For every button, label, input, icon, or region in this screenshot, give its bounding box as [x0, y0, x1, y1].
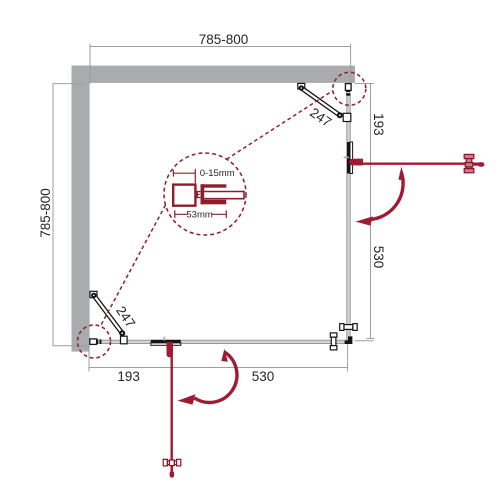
hinge profile right door: [344, 142, 353, 174]
detail leader line to bottom-left: [100, 205, 166, 327]
wall top: [72, 66, 356, 83]
detail dim 53mm: [175, 210, 227, 218]
door right tip: [474, 162, 485, 166]
brace bottom-left: [90, 291, 127, 344]
dimension 530 bottom: [347, 344, 349, 372]
detail dim 0-15mm: [173, 169, 195, 183]
svg-text:785-800: 785-800: [38, 188, 53, 238]
detail dashed circle: [164, 153, 246, 235]
svg-text:530: 530: [371, 246, 386, 269]
dimension 785-800 top: [90, 44, 351, 84]
dimension 530 right: [355, 339, 375, 341]
glass panel right: [347, 96, 350, 341]
detail: glass in profile: [204, 191, 244, 200]
detail: door profile: [201, 184, 227, 204]
detail leader line to top-right: [227, 91, 333, 160]
door bottom (open): [167, 342, 173, 471]
corner bracket: [345, 336, 353, 344]
svg-text:53mm: 53mm: [186, 210, 212, 221]
dimension 193 right: [355, 84, 375, 339]
svg-text:530: 530: [252, 369, 275, 384]
detail: wall profile: [173, 185, 195, 206]
svg-text:785-800: 785-800: [199, 32, 249, 47]
swing arc right door: [356, 167, 406, 226]
door bottom handle: [163, 459, 181, 466]
door bottom tip: [170, 466, 175, 478]
door right handle: [464, 154, 474, 172]
wall clamp bottom-left: [90, 339, 101, 345]
svg-text:193: 193: [371, 113, 386, 136]
wall clamp top-right: [345, 84, 351, 96]
detail: seal marks: [197, 192, 200, 198]
dimension 193 bottom: [89, 345, 348, 372]
glass clamp spool on bottom panel: [330, 333, 337, 350]
svg-text:0-15mm: 0-15mm: [200, 168, 235, 179]
wall left: [72, 66, 90, 352]
glass panel bottom: [101, 340, 350, 343]
dashed circle top-right: [333, 72, 366, 105]
door right (open): [349, 159, 482, 166]
swing arc bottom door: [178, 349, 237, 405]
dimension 785-800 left: [53, 84, 90, 346]
hinge profile bottom door: [151, 337, 181, 346]
brace top-right: [298, 83, 351, 121]
svg-text:193: 193: [117, 369, 140, 384]
dashed circle bottom-left: [78, 325, 111, 358]
glass clamp spool on right panel: [340, 324, 357, 331]
